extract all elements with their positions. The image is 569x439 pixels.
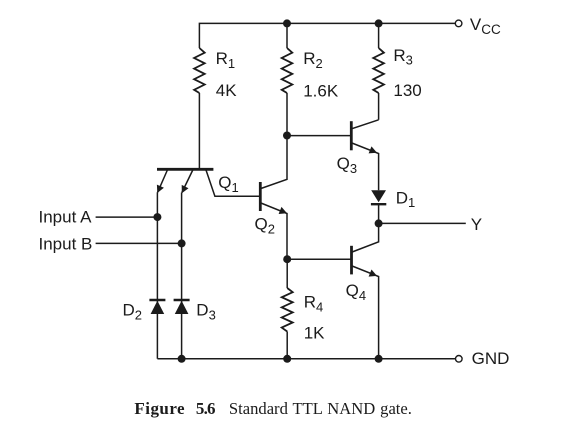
transistor Q2 emitter (261, 203, 287, 259)
arrow Q2 emitter (279, 207, 287, 214)
transistor Q3 collector (352, 120, 379, 129)
diode D3 cathode bar (174, 299, 190, 301)
junction node bottom R4 (283, 355, 291, 363)
svg-text:Standard TTL NAND gate.: Standard TTL NAND gate. (229, 399, 412, 418)
junction node B2 (283, 132, 291, 140)
svg-text:1K: 1K (304, 323, 325, 342)
transistor Q1 emitter 1 (158, 170, 168, 192)
wire R1 to Q1 base (198, 93, 200, 169)
wire Input A (96, 216, 158, 218)
svg-text:1.6K: 1.6K (303, 82, 339, 101)
transistor Q3 base bar (350, 121, 353, 150)
transistor Q4 emitter (352, 266, 379, 359)
diode D3 triangle (175, 301, 189, 314)
wire VCC top rail (199, 23, 455, 48)
wire Input B (96, 242, 182, 244)
junction node bottom D3 (178, 355, 186, 363)
wire R2 to node B2 (286, 93, 288, 136)
wire GND bottom rail (157, 358, 455, 360)
transistor Q4 collector (352, 223, 379, 252)
arrow Q3 emitter (369, 146, 377, 153)
transistor Q4 base bar (350, 246, 353, 275)
wire output Y (379, 222, 466, 224)
wire emitter1 to D2 and bottom rail (156, 192, 158, 358)
wire node E2 to R4 (286, 259, 288, 288)
svg-text:Figure5.6: Figure5.6 (134, 399, 215, 418)
resistor R1 (194, 48, 205, 93)
transistor Q1 base bar (157, 168, 213, 171)
arrow Q1 emitter 1 (157, 185, 164, 193)
junction node bottom Q4 (375, 355, 383, 363)
transistor Q1 collector (206, 170, 260, 196)
transistor Q1 emitter 2 (182, 170, 193, 193)
wire D1 cathode to node Y (378, 204, 380, 223)
svg-text:GND: GND (472, 349, 510, 368)
resistor R2 (282, 48, 293, 93)
svg-text:130: 130 (393, 81, 421, 100)
diode D1 triangle (371, 190, 386, 202)
svg-text:Input A: Input A (39, 208, 93, 227)
junction node E2 (283, 255, 291, 263)
wire node B2 to Q3 base (287, 135, 351, 137)
junction node Y (375, 219, 383, 227)
transistor Q2 base bar (259, 182, 262, 211)
wire R3 to Q3 collector (378, 93, 380, 120)
transistor Q3 emitter (352, 143, 379, 190)
svg-text:4K: 4K (216, 81, 237, 100)
wire R2 top lead (286, 23, 288, 48)
diode D1 cathode bar (371, 203, 386, 205)
diode D2 triangle (151, 301, 165, 314)
junction node Input B (178, 239, 186, 247)
wire node E2 to Q4 base (287, 258, 351, 260)
wire R3 top lead (378, 23, 380, 48)
transistor Q2 collector (261, 136, 287, 189)
diode D2 cathode bar (149, 299, 165, 301)
wire emitter2 to D3 and bottom rail (181, 193, 183, 359)
svg-text:Input B: Input B (39, 235, 93, 254)
terminal GND (456, 356, 463, 363)
arrow Q4 emitter (369, 270, 377, 277)
svg-text:Y: Y (471, 215, 482, 234)
junction node Input A (153, 213, 161, 221)
junction node top rail R2 (283, 19, 291, 27)
terminal VCC (455, 20, 462, 27)
resistor R3 (373, 48, 384, 93)
resistor R4 (282, 288, 293, 332)
junction node top rail R3 (375, 19, 383, 27)
arrow Q1 emitter 2 (182, 185, 189, 193)
wire R4 to bottom rail (286, 332, 288, 359)
